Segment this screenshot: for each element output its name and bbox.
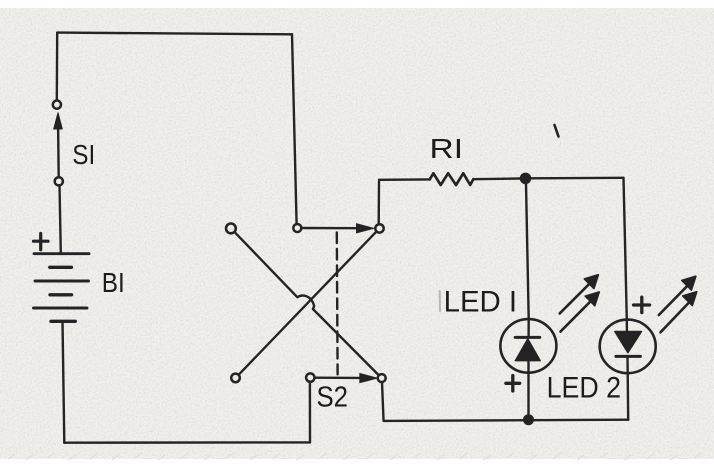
svg-text:LED I: LED I — [444, 285, 517, 318]
battery B1 plus sign — [34, 234, 49, 250]
wire LED1 down to bottom junction — [527, 373, 529, 416]
label S2 — [317, 382, 349, 414]
LED1 cathode bar — [515, 336, 540, 339]
LED2 cathode bar — [616, 355, 641, 358]
switch S2 dashed gang link — [336, 233, 339, 375]
switch S1 arrowhead — [54, 113, 63, 129]
svg-text:S2: S2 — [317, 382, 349, 414]
battery B1 plate 6 short — [51, 320, 75, 323]
bottom scan streak — [8, 453, 701, 460]
switch S2 upper-middle pole — [293, 224, 301, 232]
LED1 internal lead — [527, 319, 530, 373]
LED1 body circle — [500, 319, 556, 373]
switch S1 top terminal — [53, 101, 61, 109]
battery B1 plate 4 short — [50, 293, 72, 296]
svg-text:BI: BI — [102, 267, 125, 298]
wire top right horizontal — [531, 177, 624, 180]
wire right of R1 — [473, 177, 521, 180]
label LED 2 — [547, 372, 622, 405]
wire middle vertical down to S2 pole — [292, 34, 297, 224]
resistor R1 zigzag — [430, 173, 474, 185]
label LED1 plus — [506, 376, 520, 392]
LED2 light arrow 2 — [661, 303, 690, 333]
LED2 internal lead — [626, 320, 629, 374]
stray faint mark left of LED 1 — [439, 291, 441, 311]
wire up to S2 lower pole — [309, 382, 312, 443]
svg-text:LED 2: LED 2 — [547, 372, 622, 405]
junction node top — [521, 173, 531, 183]
switch S2 lower mover arrow — [315, 377, 360, 380]
LED1 anode triangle — [515, 339, 540, 361]
switch S2 upper-left contact — [226, 224, 236, 234]
label LED 1 — [444, 285, 517, 318]
label LED2 plus — [634, 297, 650, 312]
wire LED2 down to bottom wire — [627, 373, 630, 419]
LED1 light arrow 1 — [560, 283, 591, 314]
wire S2 lower-right contact down — [382, 382, 384, 419]
LED2 light arrow 1 — [659, 285, 688, 315]
stray mark top right — [555, 125, 559, 137]
LED1 light arrow 2 — [561, 300, 592, 331]
switch S2 lower-right contact — [378, 374, 386, 382]
switch S2 crossover wire UL-LR with hop — [235, 232, 378, 374]
label S1 — [72, 139, 95, 170]
label B1 — [102, 267, 125, 298]
battery B1 plate 1 long — [34, 252, 89, 255]
junction node bottom — [524, 415, 533, 424]
wire S2 upper-right contact up — [378, 182, 381, 225]
svg-text:RI: RI — [430, 133, 464, 164]
switch S2 lower-middle pole — [306, 373, 314, 381]
label R1 — [430, 133, 464, 164]
switch S2 upper-right contact — [375, 224, 383, 232]
wire battery negative down — [63, 321, 65, 442]
wire top-left down to S1 — [56, 33, 59, 101]
switch S1 lever — [57, 126, 60, 177]
wire S1 to battery — [60, 186, 61, 253]
battery B1 plate 5 long — [34, 307, 88, 310]
battery B1 plate 3 long — [35, 280, 89, 283]
wire top horizontal — [57, 33, 292, 35]
wire bottom right horizontal — [384, 420, 629, 421]
switch S1 bottom terminal — [55, 177, 63, 185]
wire left of R1 — [379, 178, 430, 181]
wire bottom-left horizontal — [64, 441, 310, 444]
battery B1 plate 2 short — [50, 266, 72, 269]
switch S2 lower-left contact — [231, 374, 240, 383]
LED2 anode triangle — [615, 332, 642, 353]
wire junction down to LED1 — [526, 183, 529, 318]
LED2 body circle — [600, 320, 656, 374]
svg-text:SI: SI — [72, 139, 95, 170]
wire right vertical down to LED2 — [624, 178, 627, 320]
switch S2 crossover wire LL-UR — [239, 232, 376, 374]
switch S2 upper mover arrow — [302, 227, 358, 230]
